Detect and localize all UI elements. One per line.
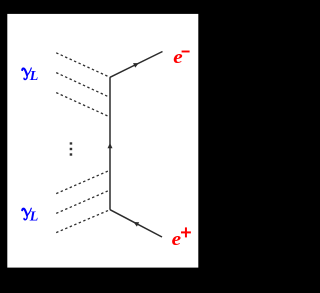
white figure background bbox=[7, 14, 198, 268]
photon 2 bbox=[56, 73, 108, 97]
photon 6 bbox=[56, 210, 110, 233]
wire: outgoing electron line bbox=[110, 52, 163, 78]
svg-text:L: L bbox=[29, 209, 39, 224]
label gamma_L (top, blue) bbox=[22, 68, 31, 80]
wire: internal fermion propagator (vertical) bbox=[109, 77, 111, 209]
arrow on positron line (pointing up-left toward vertex) bbox=[132, 220, 139, 227]
arrow on propagator (up) bbox=[108, 143, 113, 148]
ellipsis dots (more photons) bbox=[70, 142, 73, 144]
svg-text:e: e bbox=[172, 229, 181, 250]
photon 3 bbox=[56, 93, 108, 117]
arrow on electron line (up-right) bbox=[133, 61, 140, 68]
svg-text:e: e bbox=[173, 47, 182, 68]
black padding background bbox=[0, 0, 207, 293]
wire: outgoing positron line bbox=[110, 210, 162, 237]
photon 4 (dashed, bottom group) bbox=[56, 171, 108, 194]
svg-text:L: L bbox=[29, 69, 39, 84]
photon 1 (dashed, top group) bbox=[56, 53, 110, 78]
label gamma_L (bottom, blue) bbox=[22, 208, 31, 220]
photon 5 bbox=[56, 191, 108, 214]
